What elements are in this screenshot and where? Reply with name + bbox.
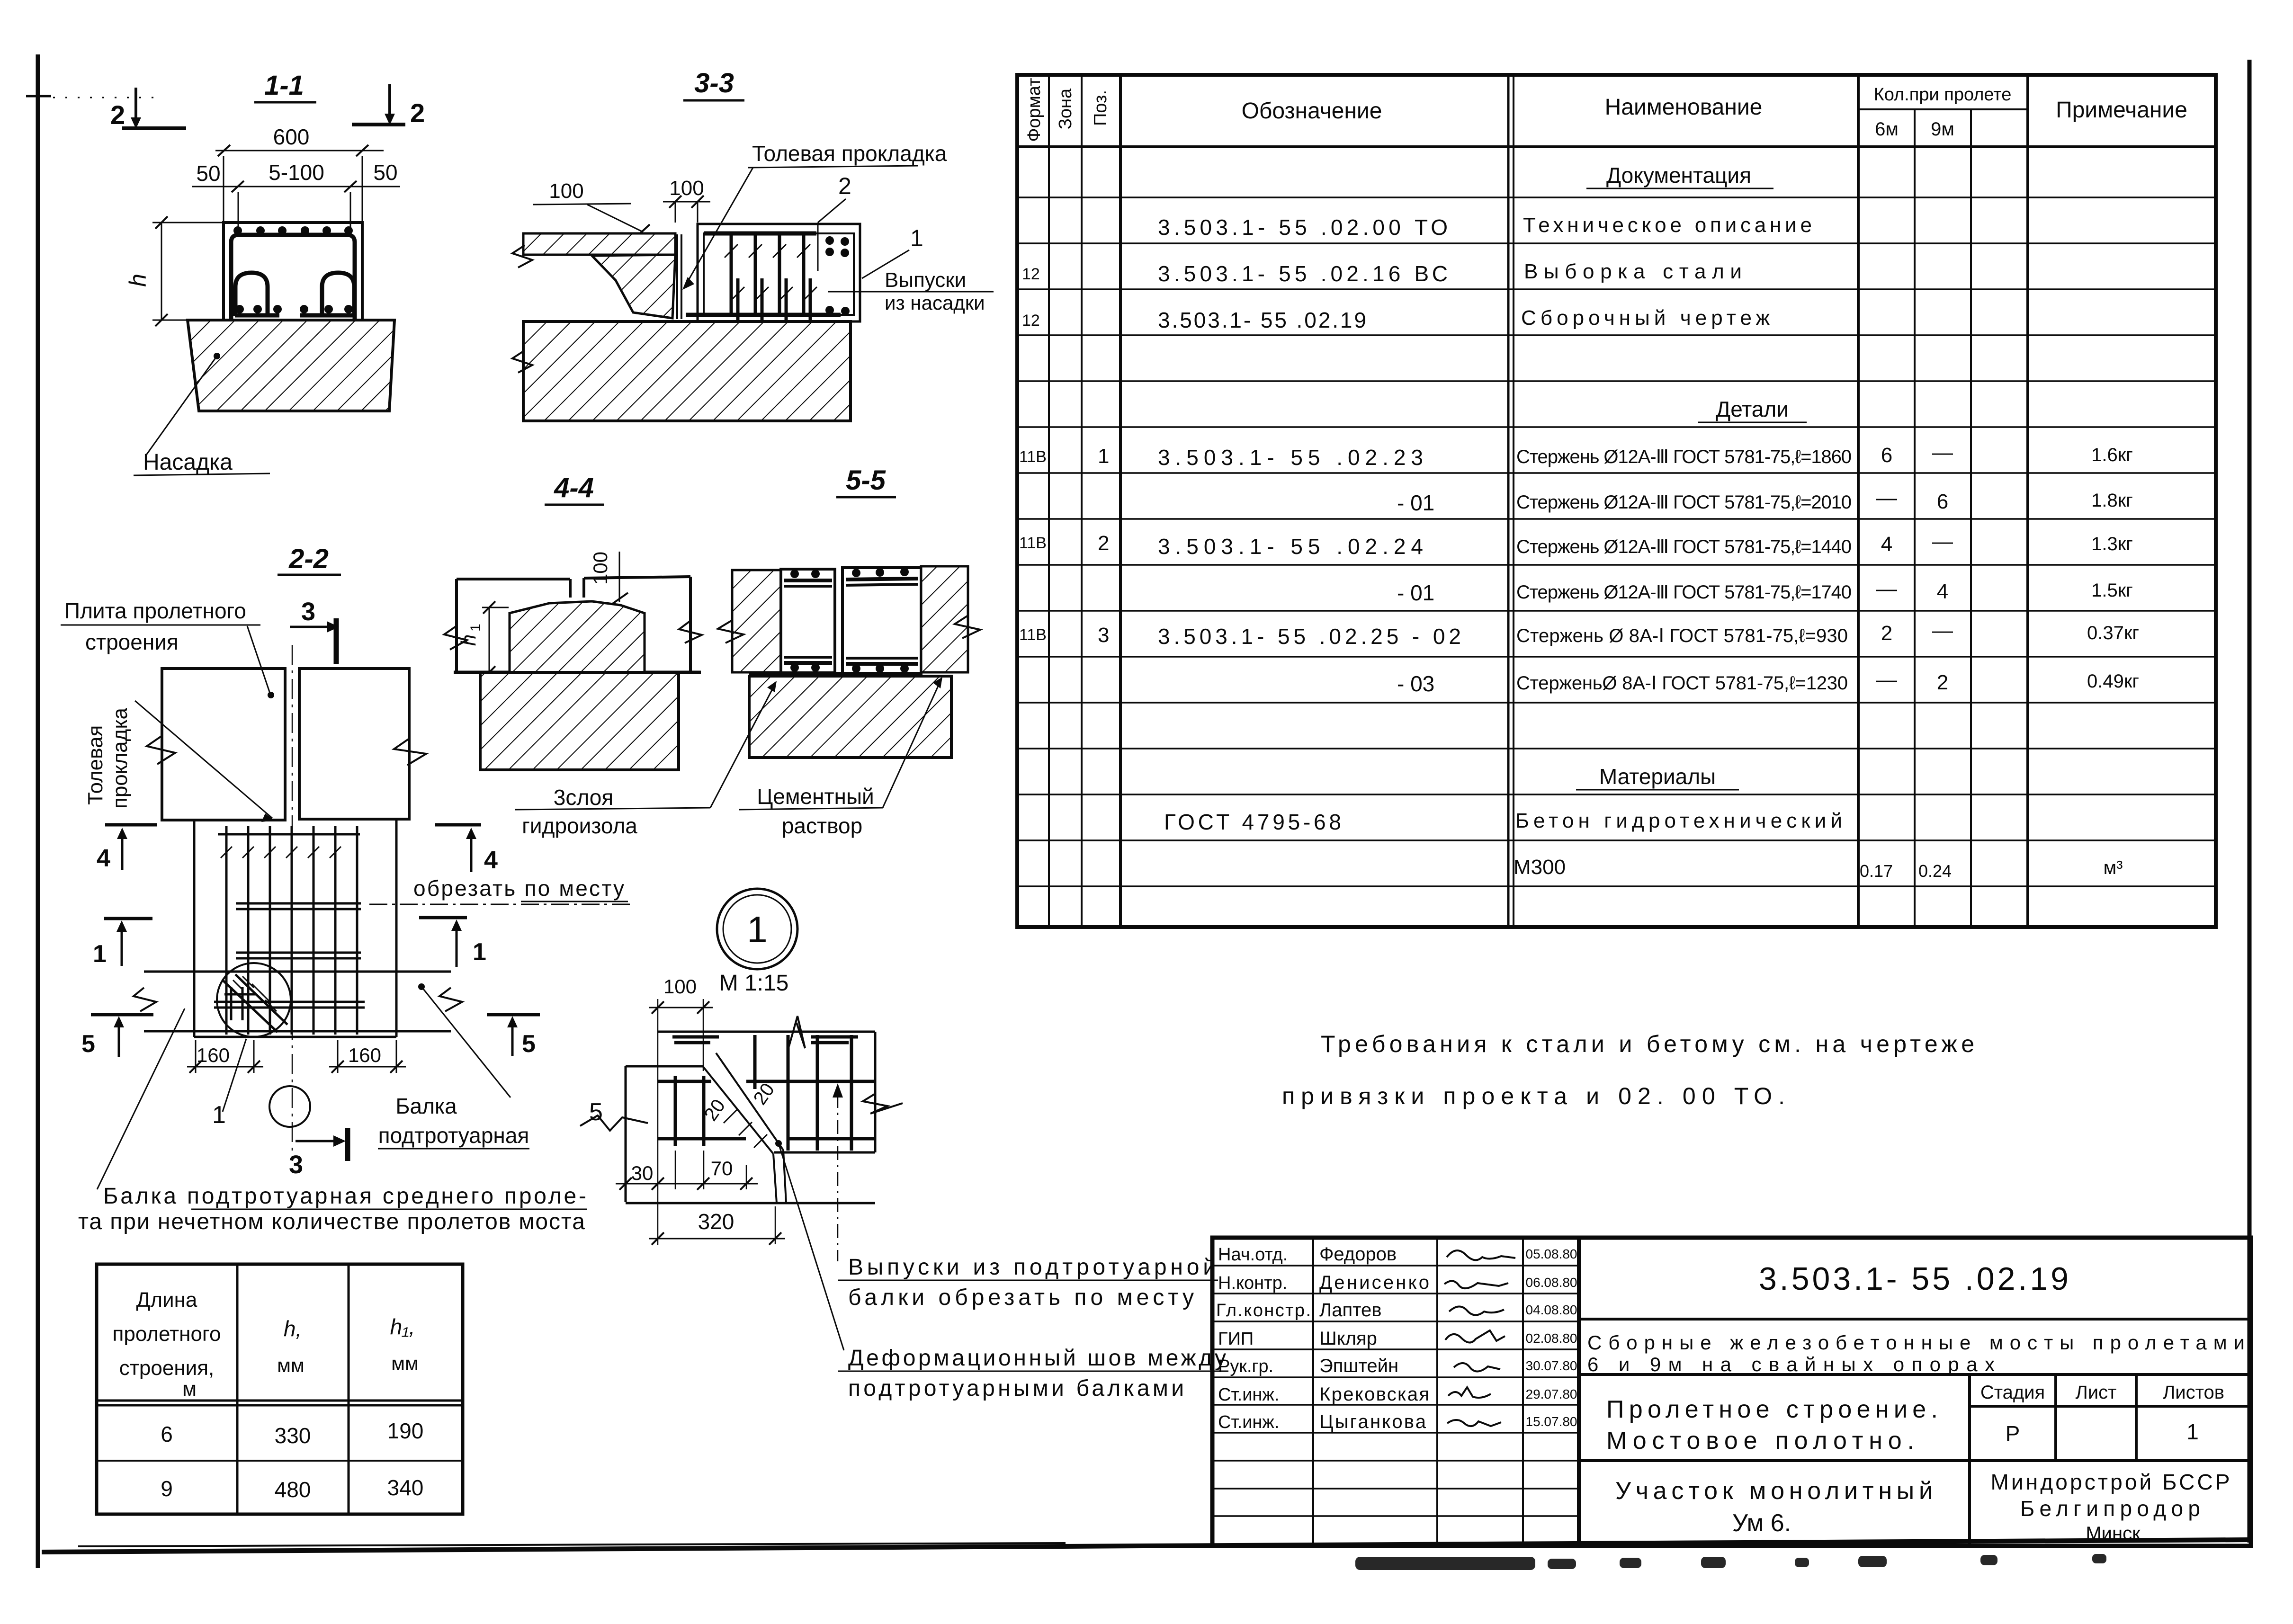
section title 1-1 xyxy=(254,70,316,102)
svg-text:4: 4 xyxy=(97,845,110,872)
stirrup rect 3-3 xyxy=(704,233,854,315)
svg-text:—: — xyxy=(1876,668,1897,691)
top rebar dots 1-1 xyxy=(233,226,353,235)
svg-text:Н.контр.: Н.контр. xyxy=(1218,1273,1287,1293)
svg-text:1: 1 xyxy=(212,1101,226,1129)
table row sterzhen 02.25 -02 xyxy=(1019,619,2139,649)
sheet frame right border xyxy=(2248,60,2252,1543)
svg-text:Длина: Длина xyxy=(136,1288,197,1312)
bottom smudge remains xyxy=(1355,1554,2106,1570)
slab web hatched 3-3 xyxy=(592,255,675,318)
svg-text:Толевая прокладка: Толевая прокладка xyxy=(752,141,947,166)
svg-text:29.07.80: 29.07.80 xyxy=(1526,1387,1577,1401)
section mark 3 top xyxy=(290,598,339,664)
svg-text:мм: мм xyxy=(391,1352,419,1374)
right slab 2-2 xyxy=(299,669,409,819)
svg-text:Плита пролетного: Плита пролетного xyxy=(64,598,246,623)
svg-text:2: 2 xyxy=(1937,671,1948,694)
beam band break left xyxy=(134,988,156,1011)
outlet bars 3-3 xyxy=(738,278,810,321)
svg-text:11В: 11В xyxy=(1019,448,1047,466)
slab break zigzag 3-3 xyxy=(512,245,532,268)
svg-text:Участок монолитный: Участок монолитный xyxy=(1615,1477,1933,1505)
svg-text:Формат: Формат xyxy=(1024,78,1044,142)
section mark 1 right xyxy=(419,918,486,967)
svg-text:5-100: 5-100 xyxy=(269,160,324,185)
svg-text:1.8кг: 1.8кг xyxy=(2091,490,2133,511)
svg-text:строения: строения xyxy=(85,630,179,654)
signature dates xyxy=(1526,1247,1577,1429)
base break zigzag 3-3 xyxy=(512,350,532,373)
svg-text:Нач.отд.: Нач.отд. xyxy=(1218,1245,1288,1265)
dimension h left xyxy=(125,216,223,326)
table row 02.00 TO xyxy=(1158,214,1812,240)
svg-text:- 01: - 01 xyxy=(1397,580,1434,605)
svg-text:Документация: Документация xyxy=(1606,163,1751,187)
svg-text:330: 330 xyxy=(275,1423,311,1448)
monolith outline 2-2 xyxy=(194,820,396,1037)
note trebovaniya text xyxy=(1282,1031,1974,1109)
svg-text:1: 1 xyxy=(473,938,486,966)
signature names xyxy=(1319,1244,1429,1432)
svg-text:1.5кг: 1.5кг xyxy=(2091,580,2133,601)
outlet bar ticks 3-3 xyxy=(731,287,817,300)
h-table bottom left xyxy=(97,1264,463,1514)
label balka srednego proleta xyxy=(78,1008,587,1234)
svg-text:3слоя: 3слоя xyxy=(554,785,613,810)
dimension 50 / 5-100 / 50 xyxy=(192,160,400,233)
svg-text:3.503.1- 55 .02.23: 3.503.1- 55 .02.23 xyxy=(1158,445,1423,470)
svg-text:Стержень Ø 8А-Ⅰ ГОСТ 5781-75,ℓ: Стержень Ø 8А-Ⅰ ГОСТ 5781-75,ℓ=930 xyxy=(1516,625,1848,646)
section mark 2 right xyxy=(352,84,425,128)
label cementny rastvor xyxy=(739,677,942,838)
mortar layer line 5-5 xyxy=(749,672,921,677)
mesh horizontal bars 2-2 xyxy=(214,903,365,1008)
svg-text:h₁,: h₁, xyxy=(390,1314,415,1339)
svg-text:3: 3 xyxy=(301,598,315,626)
svg-text:Ум 6.: Ум 6. xyxy=(1732,1509,1791,1537)
signature role names xyxy=(1216,1245,1311,1432)
right block rebar detail xyxy=(672,1035,875,1151)
table row M300 xyxy=(1514,856,2123,881)
label tolevaya prokladka vertical xyxy=(84,701,275,822)
svg-text:балки обрезать по месту: балки обрезать по месту xyxy=(848,1285,1194,1310)
beam cross-section 1-1 outer xyxy=(224,223,362,320)
svg-text:100: 100 xyxy=(663,975,697,998)
svg-text:ГИП: ГИП xyxy=(1218,1329,1254,1349)
svg-text:Эпштейн: Эпштейн xyxy=(1319,1356,1398,1376)
svg-text:Лаптев: Лаптев xyxy=(1319,1300,1382,1321)
left hatched slab 5-5 xyxy=(732,570,781,672)
label vypuski iz nasadki xyxy=(828,268,994,314)
leader deformatsionny shov xyxy=(775,1140,844,1350)
dimension 160 right xyxy=(329,1040,406,1073)
svg-text:—: — xyxy=(1932,619,1953,642)
svg-text:h: h xyxy=(125,274,151,287)
svg-text:Лист: Лист xyxy=(2076,1382,2117,1403)
svg-text:1: 1 xyxy=(468,624,484,632)
svg-text:Толевая: Толевая xyxy=(84,725,107,805)
svg-text:30: 30 xyxy=(631,1162,654,1184)
svg-text:2-2: 2-2 xyxy=(288,544,329,574)
slab bottom line 4-4 xyxy=(454,671,701,674)
svg-text:Шкляр: Шкляр xyxy=(1319,1328,1377,1349)
monolith block 3-3 xyxy=(698,224,860,321)
svg-text:мм: мм xyxy=(277,1354,305,1376)
dimension 30 70 detail xyxy=(616,1151,758,1190)
svg-text:Выпуски из подтротуарной: Выпуски из подтротуарной xyxy=(848,1255,1216,1280)
svg-text:340: 340 xyxy=(387,1475,424,1500)
section title 3-3 xyxy=(683,68,744,100)
svg-text:Кол.при пролете: Кол.при пролете xyxy=(1874,85,2012,105)
break left 5-5 xyxy=(718,620,743,643)
svg-text:строения,: строения, xyxy=(119,1356,215,1380)
section mark 2 left xyxy=(110,88,186,130)
svg-text:3-3: 3-3 xyxy=(694,68,734,98)
tar pad joint 3-3 xyxy=(677,234,681,319)
table row sterzhen -01b xyxy=(1397,577,2133,605)
bottom bars 1-1 xyxy=(235,313,279,318)
mesh top bar 2-2 xyxy=(218,833,360,836)
right hatched slab 5-5 xyxy=(921,566,968,672)
svg-text:—: — xyxy=(1932,441,1953,464)
svg-text:160: 160 xyxy=(197,1044,230,1066)
svg-text:6м: 6м xyxy=(1875,119,1899,140)
svg-text:600: 600 xyxy=(273,125,310,149)
svg-text:0.24: 0.24 xyxy=(1918,861,1952,881)
svg-text:1-1: 1-1 xyxy=(264,70,304,101)
table row sterzhen -03 xyxy=(1397,668,2139,696)
table row sterzhen -01 xyxy=(1397,486,2133,515)
svg-text:3.503.1- 55 .02.24: 3.503.1- 55 .02.24 xyxy=(1158,534,1423,559)
svg-text:320: 320 xyxy=(698,1209,734,1234)
dimension h1 4-4 xyxy=(457,601,509,678)
svg-text:h,: h, xyxy=(284,1316,302,1341)
svg-text:02.08.80: 02.08.80 xyxy=(1526,1331,1577,1346)
pile cap base 3-3 hatched xyxy=(523,321,851,421)
svg-text:9м: 9м xyxy=(1931,119,1954,140)
svg-text:3.503.1- 55 .02.00 ТО: 3.503.1- 55 .02.00 ТО xyxy=(1158,215,1448,240)
svg-text:—: — xyxy=(1932,530,1953,553)
sidewalk beam band 2-2 xyxy=(144,972,451,1031)
svg-text:4-4: 4-4 xyxy=(554,473,594,503)
svg-text:Балка: Балка xyxy=(395,1094,457,1118)
section name xyxy=(1615,1477,1933,1537)
section mark 5 right xyxy=(487,1015,540,1058)
label plita proletnogo stroeniya xyxy=(61,598,274,698)
vertical bars 3-3 xyxy=(731,233,804,315)
svg-text:Поз.: Поз. xyxy=(1091,90,1111,126)
svg-text:М 1:15: М 1:15 xyxy=(719,971,789,996)
table row lines xyxy=(1017,197,2216,886)
slab break left 4-4 xyxy=(444,626,467,650)
dimension 600 xyxy=(215,125,384,222)
svg-text:1: 1 xyxy=(93,940,107,968)
slab outline 4-4 xyxy=(457,577,690,672)
svg-text:—: — xyxy=(1876,577,1897,600)
title block outline xyxy=(1212,1238,2251,1546)
svg-text:3.503.1- 55 .02.19: 3.503.1- 55 .02.19 xyxy=(1759,1261,2071,1297)
slab break right 4-4 xyxy=(679,621,702,643)
svg-text:СтерженьØ 8А-Ⅰ ГОСТ 5781-75,ℓ=: СтерженьØ 8А-Ⅰ ГОСТ 5781-75,ℓ=1230 xyxy=(1516,673,1848,694)
svg-text:0.17: 0.17 xyxy=(1860,861,1893,881)
svg-text:Стадия: Стадия xyxy=(1980,1382,2045,1403)
svg-text:Денисенко: Денисенко xyxy=(1319,1272,1429,1293)
svg-text:Федоров: Федоров xyxy=(1319,1244,1397,1265)
label balka podtrotuarnaya xyxy=(378,983,529,1149)
dimension 100 right 3-3 xyxy=(663,177,710,223)
detail circle on beam xyxy=(217,963,291,1037)
svg-text:1: 1 xyxy=(747,909,767,950)
pile cap base 4-4 xyxy=(480,672,679,770)
svg-text:5: 5 xyxy=(522,1030,536,1058)
specification table grid xyxy=(1017,75,2216,927)
corner dots 3-3 xyxy=(825,236,850,315)
svg-text:Стержень Ø12А-Ⅲ ГОСТ 5781-75,ℓ: Стержень Ø12А-Ⅲ ГОСТ 5781-75,ℓ=1740 xyxy=(1516,582,1852,603)
svg-text:70: 70 xyxy=(711,1157,733,1179)
leader vypuski (dashed vertical with arrow) xyxy=(833,1083,843,1261)
detail callout 1 xyxy=(212,1039,246,1129)
dimension 160 left xyxy=(187,1040,263,1073)
svg-text:Зона: Зона xyxy=(1056,88,1075,129)
svg-text:190: 190 xyxy=(387,1419,424,1443)
svg-text:4: 4 xyxy=(484,847,498,874)
beam band break right xyxy=(439,988,462,1011)
svg-text:2: 2 xyxy=(838,173,851,199)
svg-text:Балка подтротуарная среднего: Балка подтротуарная среднего проле- xyxy=(103,1184,586,1209)
label vypuski iz podtrotuarnoy xyxy=(838,1255,1218,1310)
svg-text:06.08.80: 06.08.80 xyxy=(1526,1275,1577,1290)
svg-text:0.37кг: 0.37кг xyxy=(2087,623,2139,643)
svg-text:3: 3 xyxy=(289,1151,303,1179)
svg-text:100: 100 xyxy=(549,179,583,203)
svg-text:Цементный: Цементный xyxy=(757,784,874,809)
svg-text:пролетного: пролетного xyxy=(113,1322,221,1346)
svg-text:1.6кг: 1.6кг xyxy=(2091,445,2133,465)
svg-text:3.503.1- 55 .02.19: 3.503.1- 55 .02.19 xyxy=(1158,308,1366,332)
label deformatsionny shov xyxy=(838,1346,1228,1401)
svg-text:5: 5 xyxy=(589,1098,603,1126)
svg-text:Обозначение: Обозначение xyxy=(1242,98,1382,124)
sheet frame left border xyxy=(26,54,156,1568)
svg-text:2: 2 xyxy=(410,98,425,128)
project title lines xyxy=(1587,1331,2245,1375)
svg-text:3: 3 xyxy=(1098,624,1109,647)
svg-text:Детали: Детали xyxy=(1716,397,1789,421)
section mark 5 left xyxy=(81,1015,153,1058)
svg-text:h: h xyxy=(457,634,480,646)
svg-text:Материалы: Материалы xyxy=(1599,764,1716,789)
svg-text:подтротуарными балками: подтротуарными балками xyxy=(848,1376,1184,1401)
dimension 100 rotated 4-4 xyxy=(589,552,628,604)
svg-text:прокладка: прокладка xyxy=(108,707,132,809)
svg-text:160: 160 xyxy=(348,1044,381,1066)
sheet frame bottom border xyxy=(42,1540,2252,1552)
svg-text:3.503.1- 55 .02.25 - 02: 3.503.1- 55 .02.25 - 02 xyxy=(1158,624,1461,649)
svg-text:11В: 11В xyxy=(1019,534,1047,552)
svg-text:15.07.80: 15.07.80 xyxy=(1526,1414,1577,1429)
svg-text:та при нечетном количестве про: та при нечетном количестве пролетов мост… xyxy=(78,1209,585,1234)
deformation joint diagonal xyxy=(703,1053,786,1203)
svg-text:1: 1 xyxy=(2186,1419,2199,1444)
svg-text:Стержень Ø12А-Ⅲ ГОСТ 5781-75,ℓ: Стержень Ø12А-Ⅲ ГОСТ 5781-75,ℓ=2010 xyxy=(1516,492,1852,513)
svg-text:гидроизола: гидроизола xyxy=(522,813,637,838)
svg-text:05.08.80: 05.08.80 xyxy=(1526,1247,1577,1261)
section title 2-2 xyxy=(278,544,341,575)
section title 4-4 xyxy=(545,473,604,505)
svg-text:100: 100 xyxy=(669,177,704,200)
mortar hump hatched 4-4 xyxy=(510,601,645,672)
table row sterzhen 02.23 xyxy=(1019,441,2133,470)
svg-text:Минск: Минск xyxy=(2086,1523,2141,1544)
svg-text:Стержень Ø12А-Ⅲ ГОСТ 5781-75,ℓ: Стержень Ø12А-Ⅲ ГОСТ 5781-75,ℓ=1440 xyxy=(1516,536,1852,557)
sheet title xyxy=(1606,1396,1938,1454)
svg-text:1: 1 xyxy=(910,225,923,251)
table row GOST 4795-68 xyxy=(1164,809,1842,834)
section title 5-5 xyxy=(836,465,896,497)
left block rebar detail xyxy=(658,1076,746,1146)
svg-text:1.3кг: 1.3кг xyxy=(2091,534,2133,554)
svg-text:из насадки: из насадки xyxy=(885,292,985,314)
svg-text:обрезать по месту: обрезать по месту xyxy=(413,876,624,901)
svg-text:раствор: раствор xyxy=(782,813,862,838)
right hoop 1-1 xyxy=(322,273,354,316)
svg-text:подтротуарная: подтротуарная xyxy=(378,1123,529,1148)
svg-text:480: 480 xyxy=(275,1477,311,1502)
svg-text:6: 6 xyxy=(161,1422,173,1446)
position bubble circle xyxy=(269,1086,310,1127)
svg-text:Цыганкова: Цыганкова xyxy=(1319,1411,1426,1432)
rotated 20 labels xyxy=(700,1080,779,1125)
svg-text:м³: м³ xyxy=(2104,857,2123,878)
svg-text:Листов: Листов xyxy=(2163,1382,2224,1403)
dimension 320 detail xyxy=(649,1206,785,1245)
svg-text:Насадка: Насадка xyxy=(143,450,233,475)
title block right grid xyxy=(1579,1319,2251,1546)
svg-text:4: 4 xyxy=(1881,533,1892,556)
svg-text:Стержень Ø12А-Ⅲ ГОСТ 5781-75,ℓ: Стержень Ø12А-Ⅲ ГОСТ 5781-75,ℓ=1860 xyxy=(1516,446,1852,467)
svg-text:Рук.гр.: Рук.гр. xyxy=(1218,1356,1273,1376)
joint dim ticks xyxy=(724,1110,767,1148)
pile cap (nasadka) hatched trapezoid xyxy=(188,320,394,411)
table row Dokumentaciya xyxy=(1586,163,1773,188)
bottom rebar dots 1-1 xyxy=(235,305,353,313)
svg-text:- 03: - 03 xyxy=(1397,671,1434,696)
svg-text:Примечание: Примечание xyxy=(2056,98,2187,123)
svg-text:- 01: - 01 xyxy=(1397,491,1434,515)
break right 5-5 xyxy=(955,616,980,638)
beam 1 5-5 xyxy=(781,569,835,673)
detail top break xyxy=(789,1016,805,1048)
svg-text:12: 12 xyxy=(1022,312,1040,330)
svg-text:9: 9 xyxy=(161,1476,173,1501)
left hoop 1-1 xyxy=(235,273,268,316)
dimension 100 detail xyxy=(649,975,713,1245)
svg-text:6: 6 xyxy=(1937,490,1948,513)
detail outline xyxy=(626,1032,875,1203)
section mark 4 left xyxy=(97,825,157,872)
bar ticks 3-3 xyxy=(725,244,810,258)
svg-text:50: 50 xyxy=(373,160,397,185)
right slab break xyxy=(394,739,426,765)
svg-text:2: 2 xyxy=(110,100,125,130)
label tolevaya prokladka 3-3 xyxy=(682,141,947,290)
svg-text:Деформационный шов между: Деформационный шов между xyxy=(848,1346,1226,1371)
section mark 1 left xyxy=(93,919,152,968)
svg-text:Выпуски: Выпуски xyxy=(885,268,966,292)
mesh bar ticks 2-2 xyxy=(221,847,341,858)
section mark 3 bottom xyxy=(289,1128,348,1179)
pile cap base 5-5 xyxy=(749,676,951,758)
svg-text:6: 6 xyxy=(1881,444,1892,467)
svg-text:Ст.инж.: Ст.инж. xyxy=(1218,1412,1279,1432)
leader line nasadka xyxy=(134,353,270,475)
stirrup 1-1 xyxy=(231,235,355,320)
signature row lines xyxy=(1212,1266,1579,1516)
svg-text:11В: 11В xyxy=(1019,626,1047,644)
svg-text:Белгипродор: Белгипродор xyxy=(2020,1496,2200,1521)
svg-text:2: 2 xyxy=(1881,622,1892,645)
stadiya list listov xyxy=(1980,1382,2224,1446)
svg-text:ГОСТ 4795-68: ГОСТ 4795-68 xyxy=(1164,810,1341,834)
svg-text:4: 4 xyxy=(1937,580,1948,603)
section mark 4 right xyxy=(435,825,498,874)
table row sterzhen 02.24 xyxy=(1019,530,2133,559)
rebar mesh vertical bars 2-2 xyxy=(226,826,357,1035)
table headers xyxy=(1024,78,2187,142)
svg-text:1: 1 xyxy=(1098,445,1109,468)
svg-text:м: м xyxy=(182,1377,197,1401)
svg-text:Крековская: Крековская xyxy=(1319,1384,1429,1405)
table row Materialy xyxy=(1576,764,1739,790)
label obrezat po mestu xyxy=(369,876,630,904)
svg-text:100: 100 xyxy=(589,552,611,585)
svg-text:50: 50 xyxy=(196,161,220,186)
signature scribbles xyxy=(1444,1250,1515,1426)
svg-text:Миндорстрой БССР: Миндорстрой БССР xyxy=(1991,1470,2230,1494)
svg-text:5-5: 5-5 xyxy=(846,465,886,496)
slab flange hatched 3-3 xyxy=(523,233,675,255)
dimension 100 left 3-3 xyxy=(533,179,650,237)
svg-text:04.08.80: 04.08.80 xyxy=(1526,1303,1577,1317)
organization xyxy=(1991,1470,2230,1544)
table row 02.19 xyxy=(1022,306,1770,332)
svg-text:—: — xyxy=(1876,486,1897,509)
detail left break with mark 5 xyxy=(580,1098,648,1131)
position label 1 (3-3) xyxy=(862,225,923,278)
joint centerline 2-2 xyxy=(292,645,293,1161)
table row Detali xyxy=(1698,397,1807,422)
bottom bar 3-3 xyxy=(686,313,841,317)
beam 2 5-5 xyxy=(842,568,921,674)
svg-text:3.503.1- 55 .02.16 ВС: 3.503.1- 55 .02.16 ВС xyxy=(1158,261,1448,286)
svg-text:Сборочный чертеж: Сборочный чертеж xyxy=(1521,306,1770,330)
label 3 sloya gidroizola xyxy=(515,681,777,838)
table row 02.16 VS xyxy=(1022,260,1742,286)
svg-text:М300: М300 xyxy=(1514,856,1566,879)
svg-text:2: 2 xyxy=(1098,532,1109,555)
svg-text:Р: Р xyxy=(2006,1421,2020,1446)
svg-text:12: 12 xyxy=(1022,265,1040,283)
top bar 3-3 xyxy=(704,232,816,236)
position label 2 (3-3) xyxy=(818,173,851,271)
svg-text:30.07.80: 30.07.80 xyxy=(1526,1358,1577,1373)
svg-text:Ст.инж.: Ст.инж. xyxy=(1218,1385,1279,1405)
svg-text:0.49кг: 0.49кг xyxy=(2087,671,2139,692)
detail right break xyxy=(863,1094,903,1114)
left slab 2-2 xyxy=(162,669,285,820)
svg-text:Наименование: Наименование xyxy=(1605,95,1763,120)
